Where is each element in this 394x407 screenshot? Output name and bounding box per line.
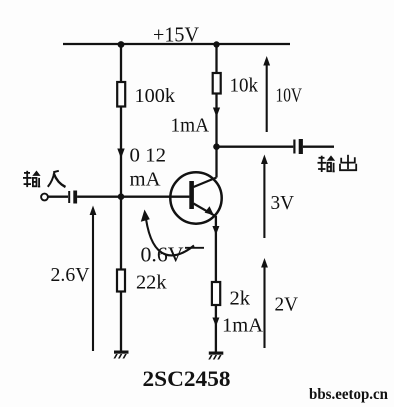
wire +15V supply rail [63, 43, 290, 45]
label 输入 (input) drawn strokes [23, 171, 66, 188]
wire C1 to base [77, 196, 189, 198]
svg-text:22k: 22k [136, 272, 167, 294]
svg-text:10V: 10V [276, 86, 303, 107]
svg-text:10k: 10k [230, 76, 259, 97]
svg-text:3V: 3V [271, 192, 295, 214]
node base junction [118, 193, 125, 200]
annotation curved arrow 0.6V to base [141, 210, 194, 256]
wire output line collector to C2 [217, 146, 294, 148]
capacitor C2 output coupling [293, 139, 303, 154]
ground symbol right [208, 352, 223, 360]
resistor R2 22k [117, 270, 125, 292]
svg-text:2SC2458: 2SC2458 [143, 366, 231, 391]
annotation leader line 0.6V [185, 247, 204, 249]
current arrow 0.12mA on left branch [117, 149, 124, 159]
svg-text:1mA: 1mA [222, 315, 264, 337]
resistor R3 10k [213, 73, 221, 94]
svg-text:bbs.eetop.cn: bbs.eetop.cn [309, 386, 388, 403]
wire R2 to ground [120, 292, 122, 352]
svg-text:100k: 100k [135, 85, 176, 107]
voltage arrow 10V [263, 56, 270, 132]
wire output right segment [303, 146, 334, 148]
svg-text:1mA: 1mA [171, 115, 210, 137]
capacitor C1 input coupling [68, 191, 77, 204]
resistor R1 100k [117, 82, 125, 107]
wire R4 to ground [215, 305, 217, 352]
label 输出 (output) drawn strokes [318, 155, 357, 172]
node rail-right junction [213, 41, 219, 47]
svg-text:+15V: +15V [153, 23, 199, 47]
svg-text:2.6V: 2.6V [51, 264, 91, 286]
voltage arrow 2V [261, 258, 268, 348]
wire right branch: R3 to collector [215, 94, 217, 178]
wire left branch: rail to R1 [120, 44, 122, 82]
svg-text:mA: mA [130, 169, 162, 191]
svg-text:0 12: 0 12 [130, 145, 167, 167]
resistor R4 2k [212, 282, 220, 305]
svg-text:0.6V: 0.6V [141, 243, 184, 267]
transistor Q1 2SC2458 [170, 172, 221, 223]
current arrow emitter [212, 226, 219, 235]
wire left branch: R1 to base node [120, 107, 122, 197]
node collector-output junction [213, 143, 220, 150]
input terminal circle [41, 194, 48, 201]
wire input terminal to C1 [48, 196, 68, 198]
current arrow 1mA emitter branch [212, 318, 219, 327]
node rail-left junction [118, 41, 125, 48]
svg-text:2k: 2k [230, 288, 251, 310]
ground symbol left [114, 351, 129, 359]
voltage arrow 3V [261, 155, 268, 239]
current arrow 1mA collector [213, 108, 220, 118]
voltage arrow 2.6V [90, 206, 97, 352]
wire left branch: base node to R2 [120, 197, 122, 270]
wire emitter branch to R4 [215, 216, 217, 282]
svg-text:2V: 2V [275, 294, 299, 316]
wire right branch: rail to R3 [215, 44, 217, 73]
